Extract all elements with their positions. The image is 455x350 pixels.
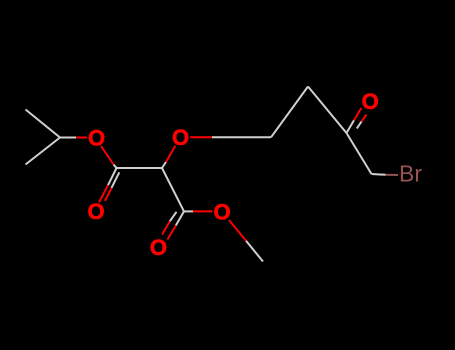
svg-text:O: O <box>362 89 379 114</box>
svg-text:O: O <box>150 235 167 260</box>
svg-text:Br: Br <box>399 161 422 187</box>
svg-text:O: O <box>214 199 231 224</box>
svg-text:O: O <box>172 125 189 150</box>
svg-text:O: O <box>88 126 105 151</box>
svg-text:O: O <box>87 199 104 224</box>
